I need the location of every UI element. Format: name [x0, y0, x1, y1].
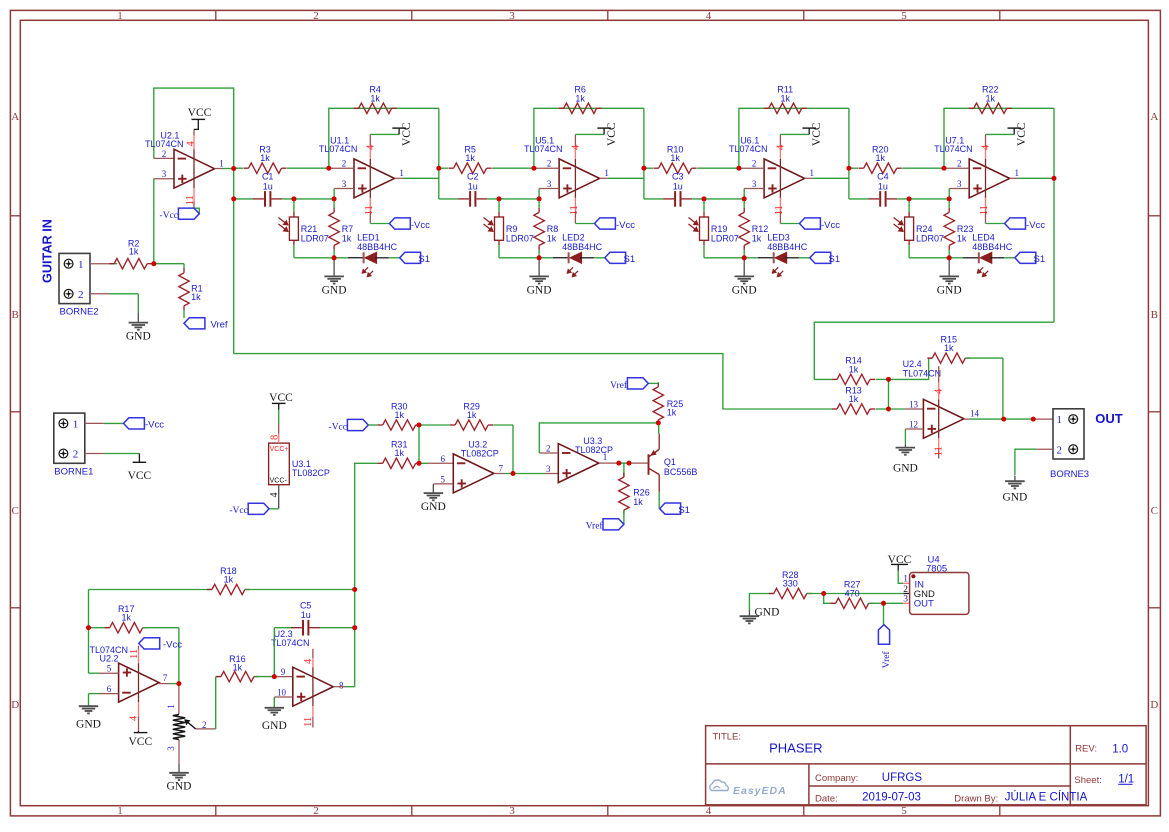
svg-text:11: 11 [129, 649, 140, 659]
svg-text:Drawn By:: Drawn By: [954, 794, 998, 805]
svg-text:48BB4HC: 48BB4HC [562, 242, 603, 252]
svg-text:LDR07: LDR07 [916, 233, 944, 243]
svg-text:-Vcc: -Vcc [163, 640, 182, 651]
svg-text:2: 2 [73, 449, 79, 461]
svg-text:1/1: 1/1 [1118, 773, 1134, 785]
svg-text:3: 3 [162, 169, 167, 179]
svg-text:1k: 1k [575, 93, 585, 103]
svg-text:11: 11 [364, 205, 375, 215]
svg-text:GND: GND [322, 284, 347, 296]
svg-text:5: 5 [901, 805, 907, 817]
svg-text:5: 5 [901, 10, 907, 22]
svg-text:1: 1 [903, 575, 908, 585]
svg-text:7: 7 [163, 673, 168, 683]
svg-text:TL082CP: TL082CP [575, 445, 613, 455]
svg-text:1: 1 [117, 10, 123, 22]
svg-text:9: 9 [281, 667, 286, 677]
svg-text:1k: 1k [670, 153, 680, 163]
svg-text:1k: 1k [752, 233, 762, 243]
svg-text:TITLE:: TITLE: [713, 731, 742, 742]
svg-text:3: 3 [547, 179, 552, 189]
svg-text:6: 6 [107, 684, 112, 694]
svg-text:1k: 1k [667, 408, 677, 418]
svg-text:S1: S1 [624, 254, 636, 265]
svg-text:4: 4 [186, 141, 197, 147]
svg-text:1k: 1k [467, 410, 477, 420]
svg-text:1k: 1k [394, 448, 404, 458]
svg-text:Vref: Vref [211, 319, 228, 330]
svg-text:-Vcc: -Vcc [160, 211, 178, 221]
svg-text:TL082CP: TL082CP [461, 448, 499, 458]
svg-text:GND: GND [937, 284, 962, 296]
svg-text:LDR07: LDR07 [506, 233, 534, 243]
svg-text:S1: S1 [418, 254, 430, 265]
svg-text:4: 4 [365, 144, 376, 150]
svg-text:LED1: LED1 [357, 232, 380, 242]
svg-text:C3: C3 [672, 172, 684, 182]
svg-text:TL074CN: TL074CN [729, 144, 768, 154]
svg-text:3: 3 [509, 805, 515, 817]
svg-text:TL074CN: TL074CN [524, 144, 563, 154]
svg-text:1k: 1k [875, 153, 885, 163]
svg-text:2: 2 [957, 159, 962, 169]
svg-text:-Vcc: -Vcc [229, 506, 247, 516]
svg-text:-Vcc: -Vcc [145, 420, 164, 431]
svg-text:1k: 1k [191, 292, 201, 302]
svg-text:-Vcc: -Vcc [329, 422, 347, 432]
svg-text:A: A [11, 111, 19, 123]
svg-text:14: 14 [970, 409, 980, 419]
svg-text:5: 5 [440, 474, 445, 484]
svg-text:GND: GND [421, 501, 446, 513]
svg-text:GND: GND [262, 720, 287, 732]
svg-text:4: 4 [934, 388, 945, 394]
svg-text:11: 11 [185, 195, 196, 205]
svg-text:2: 2 [313, 805, 319, 817]
svg-text:1: 1 [219, 159, 224, 169]
svg-text:2: 2 [546, 444, 551, 454]
svg-text:2: 2 [1057, 444, 1063, 456]
svg-text:48BB4HC: 48BB4HC [767, 242, 808, 252]
svg-text:8: 8 [339, 680, 344, 690]
svg-text:A: A [1150, 111, 1158, 123]
svg-text:1u: 1u [878, 181, 888, 191]
svg-text:GUITAR IN: GUITAR IN [41, 219, 55, 283]
svg-text:3: 3 [509, 10, 515, 22]
svg-text:1k: 1k [957, 233, 967, 243]
svg-text:VCC-: VCC- [270, 478, 288, 485]
svg-text:1k: 1k [849, 364, 859, 374]
svg-text:11: 11 [569, 205, 580, 215]
svg-text:1k: 1k [633, 497, 643, 507]
svg-text:JÚLIA E CÍNTIA: JÚLIA E CÍNTIA [1005, 791, 1088, 804]
svg-text:4: 4 [981, 144, 992, 150]
svg-text:GND: GND [732, 284, 757, 296]
svg-text:C1: C1 [262, 172, 274, 182]
svg-text:VCC: VCC [269, 392, 293, 404]
svg-text:2: 2 [202, 720, 207, 730]
svg-text:11: 11 [774, 205, 785, 215]
svg-text:TL074CN: TL074CN [145, 139, 184, 149]
svg-text:D: D [11, 699, 19, 711]
svg-text:B: B [12, 309, 19, 321]
svg-text:470: 470 [845, 588, 860, 598]
svg-text:3: 3 [546, 464, 551, 474]
svg-text:7: 7 [498, 463, 503, 473]
svg-text:1: 1 [117, 805, 123, 817]
svg-text:LDR07: LDR07 [301, 233, 329, 243]
svg-text:GND: GND [76, 719, 101, 731]
svg-text:-Vcc: -Vcc [411, 220, 430, 231]
svg-text:C: C [12, 505, 19, 517]
svg-text:11: 11 [934, 446, 945, 456]
svg-text:-Vcc: -Vcc [1026, 220, 1045, 231]
svg-text:LED3: LED3 [767, 232, 790, 242]
svg-text:2: 2 [752, 159, 757, 169]
svg-text:2: 2 [78, 289, 84, 301]
svg-text:PHASER: PHASER [769, 741, 822, 756]
svg-text:1: 1 [78, 259, 84, 271]
svg-text:S1: S1 [678, 505, 690, 516]
svg-text:UFRGS: UFRGS [882, 772, 923, 784]
svg-text:2: 2 [342, 159, 347, 169]
svg-text:1k: 1k [342, 233, 352, 243]
svg-text:3: 3 [342, 179, 347, 189]
svg-text:2019-07-03: 2019-07-03 [862, 792, 921, 804]
svg-text:OUT: OUT [1095, 411, 1123, 426]
svg-text:330: 330 [783, 579, 798, 589]
svg-text:C: C [1151, 505, 1158, 517]
svg-text:BORNE1: BORNE1 [54, 466, 93, 477]
svg-text:Vref: Vref [586, 521, 604, 532]
svg-text:-Vcc: -Vcc [821, 220, 840, 231]
svg-text:8: 8 [270, 435, 281, 440]
svg-text:11: 11 [303, 717, 314, 727]
svg-text:3: 3 [752, 179, 757, 189]
svg-text:TL074CN: TL074CN [903, 368, 942, 378]
svg-text:1: 1 [1015, 168, 1020, 178]
svg-text:7805: 7805 [926, 564, 947, 575]
svg-text:1: 1 [604, 168, 609, 178]
svg-text:48BB4HC: 48BB4HC [357, 242, 398, 252]
svg-text:VCC+: VCC+ [270, 446, 289, 453]
svg-text:VCC: VCC [1016, 122, 1028, 146]
svg-text:1: 1 [166, 704, 176, 709]
svg-text:13: 13 [909, 399, 919, 409]
svg-text:VCC: VCC [606, 122, 618, 146]
svg-text:C4: C4 [877, 172, 889, 182]
svg-text:VCC: VCC [188, 107, 212, 119]
svg-text:TL074CN: TL074CN [934, 144, 973, 154]
svg-text:Sheet:: Sheet: [1074, 775, 1101, 786]
svg-text:LDR07: LDR07 [711, 233, 739, 243]
svg-text:5: 5 [107, 664, 112, 674]
svg-text:1u: 1u [301, 610, 311, 620]
svg-text:U2.4: U2.4 [903, 359, 922, 369]
svg-text:Vref: Vref [610, 380, 628, 391]
svg-text:VCC: VCC [128, 470, 152, 482]
svg-text:TL082CP: TL082CP [292, 468, 330, 478]
svg-text:1k: 1k [780, 93, 790, 103]
svg-text:4: 4 [269, 493, 280, 498]
svg-text:4: 4 [706, 805, 712, 817]
svg-text:1k: 1k [233, 663, 243, 673]
svg-text:BORNE2: BORNE2 [60, 307, 99, 318]
svg-text:Vref: Vref [881, 651, 892, 669]
svg-text:TL074CN: TL074CN [319, 144, 358, 154]
svg-text:VCC: VCC [128, 736, 152, 748]
svg-text:4: 4 [303, 658, 314, 664]
svg-text:12: 12 [909, 420, 918, 430]
svg-text:VCC: VCC [401, 122, 413, 146]
svg-text:1k: 1k [849, 394, 859, 404]
svg-text:LED4: LED4 [972, 232, 995, 242]
svg-text:REV:: REV: [1075, 744, 1097, 755]
svg-text:1k: 1k [547, 233, 557, 243]
svg-text:48BB4HC: 48BB4HC [972, 242, 1013, 252]
svg-text:6: 6 [440, 454, 445, 464]
svg-text:1k: 1k [985, 93, 995, 103]
svg-text:11: 11 [979, 205, 990, 215]
svg-text:1: 1 [1057, 414, 1063, 426]
svg-text:LED2: LED2 [562, 232, 585, 242]
svg-text:1k: 1k [260, 153, 270, 163]
svg-text:1k: 1k [465, 153, 475, 163]
svg-text:1: 1 [809, 168, 814, 178]
svg-text:1: 1 [73, 419, 79, 431]
svg-text:3: 3 [957, 179, 962, 189]
svg-text:4: 4 [775, 144, 786, 150]
svg-text:C5: C5 [300, 601, 312, 611]
svg-text:GND: GND [167, 780, 192, 792]
svg-text:VCC: VCC [811, 122, 823, 146]
svg-text:S1: S1 [829, 254, 841, 265]
svg-text:C2: C2 [467, 172, 479, 182]
svg-text:1u: 1u [263, 181, 273, 191]
svg-text:1k: 1k [370, 93, 380, 103]
svg-text:4: 4 [129, 715, 140, 721]
svg-text:3: 3 [166, 746, 176, 751]
svg-text:TL074CN: TL074CN [271, 638, 310, 648]
svg-text:GND: GND [1002, 492, 1027, 504]
svg-text:1: 1 [399, 168, 404, 178]
svg-text:OUT: OUT [914, 599, 934, 610]
svg-text:TL074CN: TL074CN [90, 645, 129, 655]
svg-text:Date:: Date: [815, 794, 838, 805]
svg-text:-Vcc: -Vcc [616, 220, 635, 231]
svg-text:GND: GND [527, 284, 552, 296]
svg-text:GND: GND [755, 606, 780, 618]
svg-text:3: 3 [903, 595, 908, 605]
svg-text:GND: GND [126, 331, 151, 343]
svg-text:R26: R26 [633, 487, 650, 497]
svg-text:2: 2 [313, 10, 319, 22]
svg-text:2: 2 [162, 149, 167, 159]
svg-text:Company:: Company: [815, 773, 858, 784]
svg-text:2: 2 [903, 585, 908, 595]
svg-text:1.0: 1.0 [1112, 743, 1128, 755]
svg-text:S1: S1 [1034, 254, 1046, 265]
svg-text:4: 4 [570, 144, 581, 150]
svg-text:D: D [1150, 699, 1158, 711]
svg-text:2: 2 [547, 159, 552, 169]
svg-text:1k: 1k [129, 247, 139, 257]
svg-text:10: 10 [277, 687, 287, 697]
svg-text:1u: 1u [673, 181, 683, 191]
svg-text:1k: 1k [224, 575, 234, 585]
svg-text:BORNE3: BORNE3 [1050, 469, 1089, 480]
svg-text:1k: 1k [394, 410, 404, 420]
svg-text:B: B [1151, 309, 1158, 321]
svg-text:GND: GND [893, 462, 918, 474]
svg-text:4: 4 [706, 10, 712, 22]
svg-text:EasyEDA: EasyEDA [733, 785, 787, 797]
svg-text:BC556B: BC556B [664, 467, 698, 477]
svg-text:1u: 1u [468, 181, 478, 191]
svg-text:Q1: Q1 [664, 457, 676, 467]
svg-text:1k: 1k [944, 343, 954, 353]
svg-text:1k: 1k [121, 613, 131, 623]
